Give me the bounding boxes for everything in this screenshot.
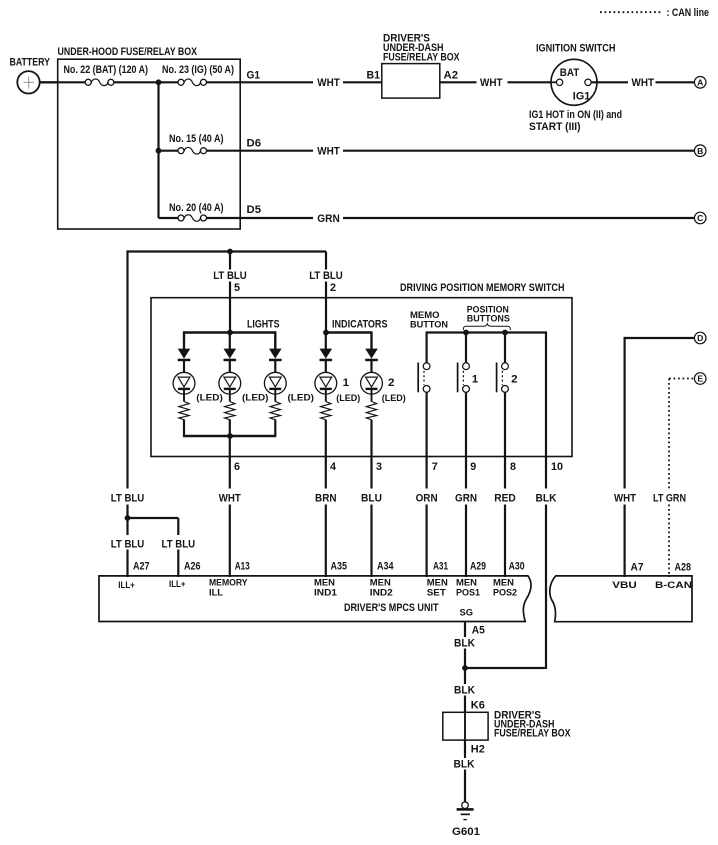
label MEN IND2: [370, 576, 393, 597]
position switch 1: [458, 363, 479, 393]
svg-text:A5: A5: [472, 625, 485, 637]
svg-text:BLU: BLU: [361, 492, 382, 504]
svg-text:DRIVING POSITION MEMORY SWITCH: DRIVING POSITION MEMORY SWITCH: [400, 282, 565, 294]
label LIGHTS: [247, 319, 280, 331]
wire lights bottom bus: [183, 420, 276, 438]
svg-text:No. 22 (BAT) (120 A): No. 22 (BAT) (120 A): [64, 64, 149, 76]
svg-text:D6: D6: [247, 138, 262, 150]
svg-text:A31: A31: [433, 561, 448, 573]
pin 4: [330, 461, 336, 473]
label 2: [388, 377, 395, 389]
svg-text:LIGHTS: LIGHTS: [247, 319, 280, 331]
wire H2 BLK: [464, 740, 466, 802]
svg-text:(LED): (LED): [196, 392, 223, 403]
svg-text:BLK: BLK: [454, 759, 475, 771]
wire LT BLU bus: [128, 250, 327, 518]
under-hood fuse/relay box: [58, 46, 241, 229]
junction node row1: [156, 79, 162, 85]
fuse No.20 (40 A): [169, 202, 224, 221]
svg-text:7: 7: [432, 461, 438, 473]
svg-text:10: 10: [551, 461, 563, 473]
wire D WHT: [625, 337, 695, 577]
wire pin4 BRN: [325, 420, 327, 577]
pin 8: [510, 461, 516, 473]
svg-text:(LED): (LED): [336, 392, 360, 403]
memo switch: [418, 363, 430, 393]
svg-text:LT BLU: LT BLU: [111, 538, 145, 550]
svg-text:IGNITION SWITCH: IGNITION SWITCH: [536, 43, 616, 55]
svg-text:ORN: ORN: [416, 492, 438, 504]
junction node indicators top: [323, 330, 329, 336]
label LED I1: [336, 392, 360, 403]
svg-text:A29: A29: [470, 561, 486, 573]
junction node switch bus 1: [463, 330, 469, 336]
svg-text:POS2: POS2: [493, 586, 517, 597]
svg-text:ILL+: ILL+: [118, 579, 135, 590]
svg-text:2: 2: [330, 282, 336, 294]
terminal G1: [247, 70, 261, 82]
svg-text:B: B: [697, 146, 703, 156]
svg-text:LT BLU: LT BLU: [213, 270, 247, 282]
svg-text:No. 20 (40 A): No. 20 (40 A): [169, 202, 224, 214]
svg-text:GRN: GRN: [317, 213, 340, 225]
pin 7: [432, 461, 438, 473]
label MEN POS1: [456, 576, 480, 597]
pin 3: [376, 461, 382, 473]
label VBU: [612, 579, 637, 590]
wire row1 inside box: [58, 81, 241, 83]
svg-text:WHT: WHT: [317, 146, 340, 158]
wire pin8 RED: [504, 392, 506, 577]
wire pin6 WHT: [229, 436, 231, 577]
svg-text:ILL: ILL: [209, 586, 223, 597]
svg-text:G1: G1: [247, 70, 261, 82]
svg-text:B-CAN: B-CAN: [655, 579, 692, 590]
svg-text:1: 1: [343, 377, 350, 389]
pin A28: [675, 562, 692, 574]
label B-CAN: [655, 579, 692, 590]
wire lights top bus: [183, 331, 276, 349]
svg-text:A28: A28: [675, 562, 692, 574]
svg-text:3: 3: [376, 461, 382, 473]
wire pin7 ORN: [426, 392, 428, 577]
terminal D6: [247, 138, 262, 150]
wire pin9 GRN: [465, 392, 467, 577]
wire pin3 BLU: [370, 420, 372, 577]
svg-text:A2: A2: [444, 70, 459, 82]
svg-text:2: 2: [511, 373, 518, 385]
junction node ILL branch: [125, 515, 131, 521]
svg-text:WHT: WHT: [219, 492, 241, 504]
pin 2: [330, 282, 336, 294]
label LED L3: [288, 392, 315, 403]
driver's under-dash fuse/relay box (bottom): [443, 710, 571, 740]
svg-text:D: D: [697, 333, 703, 343]
svg-text:A30: A30: [509, 561, 525, 573]
svg-text:(LED): (LED): [242, 392, 269, 403]
svg-text:LT GRN: LT GRN: [653, 492, 686, 504]
svg-text:START (III): START (III): [529, 121, 581, 133]
svg-text:: CAN line: : CAN line: [667, 7, 710, 19]
svg-text:UNDER-HOOD FUSE/RELAY BOX: UNDER-HOOD FUSE/RELAY BOX: [58, 46, 198, 58]
svg-text:K6: K6: [471, 700, 485, 712]
junction node switch bus 2: [502, 330, 508, 336]
pin 6: [234, 461, 240, 473]
wire row C GRN: [240, 213, 694, 225]
label MEN POS2: [493, 576, 517, 597]
label LED L2: [242, 392, 269, 403]
wire SG A5 BLK: [464, 622, 466, 669]
wire switch top bus: [427, 331, 546, 456]
svg-text:POS1: POS1: [456, 586, 480, 597]
connector C: [694, 212, 706, 224]
svg-text:C: C: [697, 213, 703, 223]
svg-text:A7: A7: [631, 562, 644, 574]
svg-text:BLK: BLK: [536, 492, 557, 504]
label LED I2: [382, 392, 406, 403]
svg-text:A35: A35: [331, 561, 348, 573]
label LT BLU A26: [162, 538, 196, 550]
terminal D5: [247, 204, 262, 216]
svg-text:A34: A34: [377, 561, 394, 573]
wire BLK to K6: [464, 668, 466, 712]
wire E CAN dotted: [669, 379, 694, 578]
wire A27 drop: [126, 518, 128, 577]
svg-text:A: A: [697, 77, 703, 87]
wire row2 inside box: [159, 150, 241, 152]
svg-text:VBU: VBU: [612, 579, 637, 590]
svg-text:ILL+: ILL+: [169, 578, 186, 589]
svg-text:B1: B1: [367, 70, 381, 82]
svg-text:5: 5: [234, 282, 240, 294]
pin 10: [551, 461, 563, 473]
CAN line legend: [600, 7, 709, 19]
driver's MPCS unit box right part: [550, 576, 692, 622]
pin A5: [472, 625, 485, 637]
ground G601: [452, 802, 480, 838]
label MEN SET: [427, 576, 448, 597]
svg-text:WHT: WHT: [480, 77, 503, 89]
label POSITION BUTTONS: [467, 303, 510, 323]
wire ILL+ branch: [128, 518, 179, 577]
svg-text:(LED): (LED): [288, 392, 315, 403]
svg-text:LT BLU: LT BLU: [162, 538, 196, 550]
label MEMO BUTTON: [410, 309, 448, 329]
svg-text:BRN: BRN: [315, 492, 337, 504]
junction node row2: [156, 148, 162, 154]
svg-text:No. 15 (40 A): No. 15 (40 A): [169, 133, 224, 145]
ignition note: [529, 109, 622, 133]
svg-text:2: 2: [388, 377, 395, 389]
LED indicator 2: [361, 333, 383, 420]
driving position memory switch box: [151, 282, 572, 457]
junction node lights top: [227, 330, 233, 336]
connector B: [694, 145, 706, 157]
LED L3: [264, 333, 286, 420]
junction node LT BLU bus: [227, 249, 233, 255]
svg-text:WHT: WHT: [614, 492, 636, 504]
LED indicator 1: [315, 333, 337, 420]
driver's MPCS unit box: [99, 576, 531, 622]
LED L2: [219, 333, 241, 420]
label BLK 3: [454, 759, 475, 771]
label SG: [460, 607, 474, 618]
fuse No.22 (BAT) (120 A): [64, 64, 149, 85]
svg-text:IG1: IG1: [573, 90, 591, 102]
svg-text:H2: H2: [471, 744, 485, 756]
svg-text:WHT: WHT: [632, 77, 655, 89]
connector D: [694, 332, 706, 344]
pin H2: [471, 744, 485, 756]
svg-text:1: 1: [472, 373, 479, 385]
svg-text:FUSE/RELAY BOX: FUSE/RELAY BOX: [383, 51, 460, 63]
svg-text:(LED): (LED): [382, 392, 406, 403]
LED L1: [173, 333, 195, 420]
brace position buttons: [463, 324, 510, 330]
svg-text:WHT: WHT: [317, 77, 340, 89]
svg-text:BLK: BLK: [454, 638, 475, 650]
label BLK 1: [454, 638, 475, 650]
fuse No.15 (40 A): [169, 133, 224, 154]
svg-text:BAT: BAT: [560, 67, 580, 79]
svg-text:IND1: IND1: [314, 586, 337, 597]
battery: [10, 56, 51, 93]
ignition switch: [536, 43, 616, 106]
svg-text:RED: RED: [494, 492, 516, 504]
label LT BLU pin2 wire: [309, 270, 343, 282]
svg-text:SG: SG: [460, 607, 474, 618]
svg-text:LT BLU: LT BLU: [111, 492, 145, 504]
label ILL+ 1: [118, 579, 135, 590]
wire ignition to A WHT: [591, 77, 694, 89]
wire vertical feed inside box: [157, 82, 159, 218]
svg-text:9: 9: [470, 461, 476, 473]
wire pin2 into box: [325, 298, 327, 333]
connector A: [694, 77, 706, 89]
pin 9: [470, 461, 476, 473]
wire pin5 into box: [229, 298, 231, 333]
svg-text:GRN: GRN: [455, 492, 477, 504]
svg-text:D5: D5: [247, 204, 262, 216]
pin K6: [471, 700, 485, 712]
svg-text:DRIVER'S MPCS UNIT: DRIVER'S MPCS UNIT: [344, 602, 439, 614]
wire pin10 BLK down: [465, 457, 546, 669]
pins A row: [133, 561, 525, 573]
label LT BLU pin5 wire: [213, 270, 247, 282]
svg-text:SET: SET: [427, 586, 446, 597]
svg-text:8: 8: [510, 461, 516, 473]
wire battery to under-hood box: [40, 81, 58, 83]
svg-text:INDICATORS: INDICATORS: [332, 319, 388, 331]
svg-text:FUSE/RELAY BOX: FUSE/RELAY BOX: [494, 728, 571, 740]
terminal B1: [367, 70, 381, 82]
label LT BLU A27: [111, 538, 145, 550]
svg-text:6: 6: [234, 461, 240, 473]
driver's under-dash fuse/relay box (top): [382, 32, 460, 98]
label MEN IND1: [314, 576, 337, 597]
fuse No.23 (IG) (50 A): [162, 64, 234, 85]
pin 5: [234, 282, 240, 294]
svg-text:A27: A27: [133, 561, 150, 573]
svg-text:BATTERY: BATTERY: [10, 56, 51, 68]
svg-text:BUTTON: BUTTON: [410, 319, 448, 330]
wire row3 inside box: [159, 217, 241, 219]
wire indicators top bus: [326, 331, 372, 349]
label MEMORY ILL: [209, 576, 248, 597]
svg-text:IND2: IND2: [370, 586, 393, 597]
svg-text:E: E: [697, 374, 703, 384]
pin A7: [631, 562, 644, 574]
svg-text:No. 23 (IG) (50 A): No. 23 (IG) (50 A): [162, 64, 234, 76]
svg-text:BLK: BLK: [454, 685, 475, 697]
wire A2 to ignition switch WHT: [440, 77, 552, 89]
label ILL+ 2: [169, 578, 186, 589]
svg-text:G601: G601: [452, 826, 480, 838]
junction node ground: [462, 665, 468, 671]
svg-text:BUTTONS: BUTTONS: [467, 313, 510, 324]
svg-text:A26: A26: [184, 561, 201, 573]
svg-text:A13: A13: [235, 561, 250, 573]
svg-text:IG1 HOT in ON (II) and: IG1 HOT in ON (II) and: [529, 109, 622, 121]
position switch 2: [497, 363, 518, 393]
terminal A2: [444, 70, 459, 82]
junction node lights bottom: [227, 433, 233, 439]
connector E: [694, 373, 706, 385]
label LED L1: [196, 392, 223, 403]
label BLK 2: [454, 685, 475, 697]
label wire colors: [111, 492, 686, 504]
svg-text:4: 4: [330, 461, 336, 473]
svg-text:LT BLU: LT BLU: [309, 270, 343, 282]
label 1: [343, 377, 350, 389]
wire G1 to B1 WHT: [240, 77, 381, 89]
label INDICATORS: [332, 319, 388, 331]
wire row B WHT: [240, 146, 694, 158]
